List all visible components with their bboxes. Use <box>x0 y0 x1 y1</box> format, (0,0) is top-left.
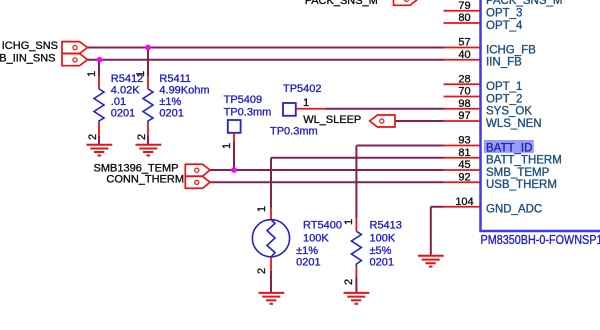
svg-text:PACK_SNS_M: PACK_SNS_M <box>305 0 378 7</box>
svg-text:97: 97 <box>458 110 470 122</box>
wire GND_ADC horizontal to pin 104 <box>431 206 444 208</box>
ground under R5412 <box>87 145 113 156</box>
ground under R5411 <box>136 145 162 156</box>
pin 93 BATT_ID highlighted <box>444 135 534 155</box>
resistor R5412 <box>94 76 104 136</box>
svg-text:28: 28 <box>458 74 470 86</box>
TP5402 pin number 1 <box>303 97 309 109</box>
R5413 pin number 2 <box>343 279 355 285</box>
wire R5411 bottom vertical to ground <box>147 136 149 145</box>
svg-text:PM8350BH-0-FOWNSP1: PM8350BH-0-FOWNSP1 <box>481 233 600 247</box>
svg-text:45: 45 <box>458 159 470 171</box>
pin 79 OPT_3 <box>444 0 523 20</box>
RT5400 value label <box>296 220 342 269</box>
svg-text:B_IIN_SNS: B_IIN_SNS <box>0 53 56 65</box>
svg-text:GND_ADC: GND_ADC <box>486 204 542 216</box>
svg-text:1: 1 <box>343 219 355 225</box>
svg-text:.01: .01 <box>111 96 126 108</box>
svg-text:4.02K: 4.02K <box>111 85 140 97</box>
svg-text:SYS_OK: SYS_OK <box>486 106 532 118</box>
svg-text:79: 79 <box>458 0 470 12</box>
R5412 value label <box>111 73 143 120</box>
svg-text:±1%: ±1% <box>159 96 181 108</box>
RT5400 pin number 1 <box>256 206 268 212</box>
R5412 pin number 2 <box>87 134 99 140</box>
svg-text:OPT_4: OPT_4 <box>486 20 523 32</box>
wire CONN_THERM horizontal to pin 92 <box>210 181 444 183</box>
svg-text:CONN_THERM: CONN_THERM <box>106 173 184 185</box>
R5412 pin number 1 <box>86 71 98 77</box>
net label CONN_THERM <box>106 173 184 185</box>
IC part number label PM8350BH-0-FOWNSP1 <box>481 233 600 247</box>
R5413 pin number 1 <box>343 219 355 225</box>
svg-text:IIN_FB: IIN_FB <box>486 57 522 69</box>
junction dot on SMB_TEMP at TP5409 <box>231 167 237 173</box>
pin 80 OPT_4 <box>444 12 524 32</box>
net label PACK_SNS_M (cut off at top) <box>305 0 378 7</box>
svg-text:BATT_THERM: BATT_THERM <box>486 155 562 167</box>
off-page connector flag ICHG_SNS <box>62 42 88 54</box>
svg-text:1: 1 <box>135 71 147 77</box>
net label WL_SLEEP <box>303 114 361 126</box>
test point TP5402 <box>283 103 326 116</box>
svg-text:TP5402: TP5402 <box>283 83 322 95</box>
net label ICHG_SNS <box>2 40 58 52</box>
R5411 pin number 1 <box>135 71 147 77</box>
svg-text:1: 1 <box>303 97 309 109</box>
junction dot on ICHG_SNS at R5411 <box>145 45 151 51</box>
wire R5413 bottom vertical to ground <box>355 276 357 293</box>
wire RT5400 bottom vertical to ground <box>270 271 272 293</box>
svg-text:104: 104 <box>455 196 473 208</box>
svg-text:TP5409: TP5409 <box>224 94 263 106</box>
svg-text:70: 70 <box>458 86 470 98</box>
wire R5411 top vertical <box>147 48 149 77</box>
svg-text:2: 2 <box>343 279 355 285</box>
svg-text:ICHG_SNS: ICHG_SNS <box>2 40 58 52</box>
pin 57 ICHG_FB <box>444 37 537 57</box>
wire RT5400 top vertical <box>270 158 272 208</box>
svg-text:4.99Kohm: 4.99Kohm <box>159 85 209 97</box>
wire WL_SLEEP flag to WLS_NEN pin <box>395 120 444 122</box>
wire net ICHG_SNS horizontal <box>88 47 444 49</box>
svg-text:±5%: ±5% <box>370 245 392 257</box>
svg-text:0201: 0201 <box>296 257 320 269</box>
junction dot on B_IIN_SNS at R5412 <box>97 57 103 63</box>
wire net B_IIN_SNS horizontal <box>88 59 444 61</box>
ground at GND_ADC <box>418 256 444 267</box>
wire SMB_TEMP horizontal to pin 45 <box>210 169 444 171</box>
pin 70 OPT_2 <box>444 86 523 106</box>
pin 45 SMB_TEMP <box>444 159 550 179</box>
wire R5412 top vertical <box>98 60 100 76</box>
svg-text:81: 81 <box>458 147 470 159</box>
off-page connector flag PACK_SNS_M (cut off at top) <box>394 0 418 5</box>
svg-text:1: 1 <box>86 71 98 77</box>
svg-text:ICHG_FB: ICHG_FB <box>486 44 536 56</box>
R5411 value label <box>159 73 209 120</box>
net label B_IIN_SNS <box>0 53 56 65</box>
svg-text:BATT_ID: BATT_ID <box>486 142 532 154</box>
wire R5412 bottom vertical to ground <box>98 136 100 145</box>
svg-text:OPT_1: OPT_1 <box>486 81 522 93</box>
svg-text:OPT_2: OPT_2 <box>486 93 522 105</box>
svg-text:80: 80 <box>458 12 470 24</box>
test point TP5409 <box>228 120 241 143</box>
pin 98 SYS_OK <box>444 98 533 118</box>
svg-text:RT5400: RT5400 <box>303 220 342 232</box>
ground under RT5400 <box>259 293 285 304</box>
pin 92 USB_THERM <box>444 172 557 192</box>
svg-text:±1%: ±1% <box>296 245 318 257</box>
R5413 value label <box>370 220 402 269</box>
svg-text:USB_THERM: USB_THERM <box>486 179 557 191</box>
svg-text:92: 92 <box>458 172 470 184</box>
svg-text:PACK_SNS_M: PACK_SNS_M <box>486 0 562 7</box>
off-page connector flag SMB1396_TEMP <box>185 164 210 176</box>
pin 81 BATT_THERM <box>444 147 562 167</box>
resistor R5411 <box>143 76 153 136</box>
TP5409 pin number 1 <box>221 143 233 149</box>
resistor R5413 <box>351 218 361 276</box>
svg-text:0201: 0201 <box>111 108 135 120</box>
svg-text:93: 93 <box>458 135 470 147</box>
wire R5413 top vertical <box>355 146 357 219</box>
TP5402 label <box>270 83 322 138</box>
off-page connector flag B_IIN_SNS <box>62 54 88 66</box>
svg-text:1: 1 <box>221 143 233 149</box>
ground under R5413 <box>344 293 370 304</box>
pin 28 OPT_1 <box>444 74 523 94</box>
svg-text:TP0.3mm: TP0.3mm <box>224 107 272 119</box>
svg-text:2: 2 <box>87 134 99 140</box>
svg-text:R5413: R5413 <box>370 220 402 232</box>
pin 104 GND_ADC <box>444 196 543 216</box>
svg-text:TP0.3mm: TP0.3mm <box>270 126 318 138</box>
wire GND_ADC vertical to ground <box>430 207 432 256</box>
TP5409 label <box>224 94 272 119</box>
svg-text:R5411: R5411 <box>159 73 191 85</box>
RT5400 pin number 2 <box>256 268 268 274</box>
svg-text:WL_SLEEP: WL_SLEEP <box>303 114 361 126</box>
thermistor RT5400 <box>252 208 289 272</box>
net label SMB1396_TEMP <box>94 163 179 175</box>
R5411 pin number 2 <box>136 134 148 140</box>
pin 97 WLS_NEN <box>444 110 542 130</box>
svg-text:2: 2 <box>136 134 148 140</box>
wire TP5409 vertical to SMB_TEMP net <box>233 143 235 171</box>
wire BATT_THERM horizontal to pin 81 <box>271 157 444 159</box>
pin name PACK_SNS_M (pin above crop) <box>486 0 562 7</box>
svg-text:1: 1 <box>256 206 268 212</box>
svg-text:WLS_NEN: WLS_NEN <box>486 118 542 130</box>
pin 40 IIN_FB <box>444 49 523 69</box>
svg-text:OPT_3: OPT_3 <box>486 8 522 20</box>
off-page connector flag WL_SLEEP (left pointing) <box>370 115 395 127</box>
svg-text:0201: 0201 <box>370 257 394 269</box>
svg-text:40: 40 <box>458 49 470 61</box>
svg-text:0201: 0201 <box>159 108 183 120</box>
svg-text:SMB_TEMP: SMB_TEMP <box>486 167 550 179</box>
op-amp U: IC PM8350BH body edge <box>479 0 600 231</box>
svg-text:57: 57 <box>458 37 470 49</box>
wire BATT_ID horizontal to pin 93 <box>356 145 443 147</box>
off-page connector flag CONN_THERM <box>185 176 210 188</box>
svg-text:2: 2 <box>256 268 268 274</box>
wire net WL_SLEEP to SYS_OK pin from TP5402 <box>326 108 444 110</box>
svg-text:100K: 100K <box>370 233 396 245</box>
svg-text:98: 98 <box>458 98 470 110</box>
svg-text:100K: 100K <box>303 233 329 245</box>
